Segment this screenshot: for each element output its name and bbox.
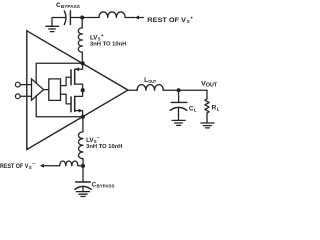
transistor PMOS (upper output device) xyxy=(71,69,75,85)
arrow (to REST OF VS-) xyxy=(40,164,44,168)
input terminal circles xyxy=(15,82,20,87)
ground (top-left) xyxy=(46,26,59,31)
label CL xyxy=(189,105,197,113)
inductor (Vs- trace inductance, horizontal) xyxy=(60,161,78,166)
resistor RL xyxy=(205,99,209,123)
label CBYPASS (top) xyxy=(56,2,81,10)
wire (gate drive upper) xyxy=(61,77,72,85)
inductor LOUT xyxy=(137,85,163,91)
node (Vs+ rail junction on triangle edge) xyxy=(81,61,85,65)
wire (gate drive lower) xyxy=(61,94,72,104)
label LVS+ xyxy=(90,34,104,42)
label LOUT xyxy=(144,77,156,85)
svg-text:+: + xyxy=(190,17,193,22)
svg-text:BYPASS: BYPASS xyxy=(97,184,116,190)
svg-text:BYPASS: BYPASS xyxy=(61,4,81,10)
wire (cap to junction to supply coil) xyxy=(70,17,99,19)
svg-text:L: L xyxy=(194,107,197,113)
svg-text:−: − xyxy=(97,137,100,142)
svg-text:OUT: OUT xyxy=(148,79,156,85)
svg-text:−: − xyxy=(32,163,36,168)
ground (CL) xyxy=(172,120,185,125)
label LVS- xyxy=(86,137,100,145)
wire (junction down to bottom cap) xyxy=(82,166,84,182)
ground (RL) xyxy=(201,123,214,128)
wire (input + ) xyxy=(20,84,31,86)
label REST OF VS- xyxy=(0,163,36,171)
node (top bypass junction) xyxy=(80,15,84,19)
svg-text:REST OF V: REST OF V xyxy=(147,17,187,24)
svg-text:OUT: OUT xyxy=(206,83,217,89)
wire (Vs- internal rail) xyxy=(36,96,83,117)
label RL xyxy=(212,104,220,112)
wire (output node) xyxy=(163,89,207,91)
op-amp power stage triangle xyxy=(27,31,128,150)
svg-text:3nH TO 10nH: 3nH TO 10nH xyxy=(86,144,122,150)
capacitor CL xyxy=(170,102,187,110)
ground (bottom bypass) xyxy=(77,192,90,197)
label VOUT xyxy=(201,81,217,89)
label REST OF VS+ xyxy=(147,17,193,25)
node (Vs- rail junction on triangle edge) xyxy=(81,115,85,119)
wire (amp output) xyxy=(128,89,137,91)
wire (coil to arrow) xyxy=(125,17,135,19)
svg-text:+: + xyxy=(101,34,104,39)
svg-text:L: L xyxy=(217,106,220,112)
inductor LVS- (vertical) xyxy=(82,117,84,132)
node (load junction) xyxy=(177,88,181,92)
wire (coil to bottom junction) xyxy=(78,165,83,167)
wire (top bypass to ground) xyxy=(52,18,66,26)
label CBYPASS (bottom) xyxy=(92,182,116,190)
arrow (to REST OF VS+) xyxy=(135,16,139,20)
inductor (Vs+ trace inductance, horizontal) xyxy=(99,12,125,18)
wire (input - ) xyxy=(20,95,31,97)
wire (RL branch) xyxy=(206,90,208,99)
transistor NMOS (lower output device) xyxy=(71,96,75,111)
wire (CL branch) xyxy=(178,90,180,102)
wire (amp out to predriver) xyxy=(44,89,49,91)
node (output of stage) xyxy=(81,88,85,92)
svg-text:REST OF V: REST OF V xyxy=(0,163,29,170)
inductor LVS+ (vertical) xyxy=(81,18,83,28)
input stage amp triangle xyxy=(32,79,44,100)
capacitor CBYPASS (bottom) xyxy=(75,182,91,189)
capacitor CBYPASS (top) xyxy=(64,11,70,25)
wire (Vs+ internal rail) xyxy=(36,63,82,83)
svg-text:3nH TO 10nH: 3nH TO 10nH xyxy=(90,42,126,48)
node (bottom bypass junction) xyxy=(81,164,85,168)
predriver box xyxy=(49,79,61,101)
